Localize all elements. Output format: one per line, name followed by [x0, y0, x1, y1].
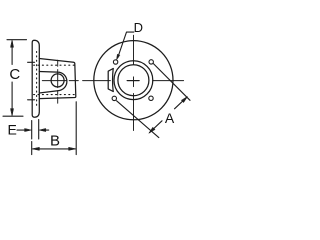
flange face tick top	[28, 61, 35, 63]
center cross front view	[127, 80, 139, 82]
tab flat on barrel	[108, 69, 113, 92]
svg-text:C: C	[9, 66, 20, 83]
leader D	[118, 32, 134, 58]
boss stadium outline	[39, 72, 67, 94]
extension line A lower	[117, 101, 159, 138]
dimension E	[17, 120, 49, 140]
hole bottom-left	[112, 96, 116, 100]
centerline vertical front view	[133, 35, 135, 130]
hidden line flange vertical	[36, 52, 38, 109]
svg-text:D: D	[134, 20, 143, 35]
bore circle	[118, 65, 149, 96]
dimension B	[32, 102, 76, 155]
centerline vertical side view	[57, 60, 59, 103]
front view big circle	[94, 41, 173, 120]
flange side view	[32, 40, 39, 117]
extension line A upper	[153, 64, 190, 101]
barrel circle	[114, 61, 153, 100]
svg-text:B: B	[50, 133, 60, 150]
hidden line top bore	[34, 64, 75, 66]
hole bottom-right	[149, 96, 153, 100]
flange face tick bottom	[28, 99, 35, 101]
pilot hole circle	[51, 74, 64, 87]
svg-text:A: A	[165, 110, 175, 126]
hole top-right	[149, 60, 153, 64]
svg-text:E: E	[8, 122, 17, 138]
dimension line A upper segment	[175, 97, 187, 109]
dimension C	[3, 40, 27, 117]
centerline horizontal both views	[42, 80, 183, 82]
tab arc	[112, 69, 115, 92]
hidden line bottom bore	[34, 94, 75, 96]
barrel body side view	[39, 59, 76, 99]
hole D top-left	[113, 60, 117, 64]
dimension line A lower segment	[150, 121, 163, 133]
